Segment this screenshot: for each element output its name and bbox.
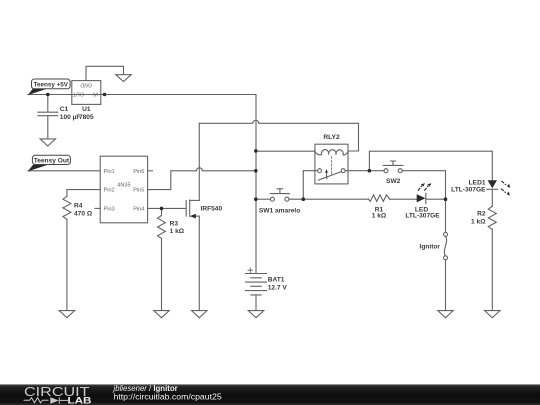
svg-text:Ignitor: Ignitor xyxy=(419,244,440,251)
svg-text:Teensy Out: Teensy Out xyxy=(34,157,70,164)
svg-text:LTL-307GE: LTL-307GE xyxy=(451,187,486,194)
svg-text:SW2: SW2 xyxy=(386,178,401,185)
svg-text:12.7 V: 12.7 V xyxy=(268,284,288,291)
svg-text:LAB: LAB xyxy=(68,394,92,405)
svg-text:R3: R3 xyxy=(170,221,179,228)
svg-text:GND: GND xyxy=(80,82,92,88)
svg-text:Pin5: Pin5 xyxy=(133,188,144,194)
svg-text:SW1 amarelo: SW1 amarelo xyxy=(259,207,300,214)
svg-text:Teensy +5V: Teensy +5V xyxy=(34,81,69,88)
svg-text:Pin2: Pin2 xyxy=(104,188,115,194)
svg-text:http://circuitlab.com/cpaut25: http://circuitlab.com/cpaut25 xyxy=(114,392,222,402)
svg-text:1 kΩ: 1 kΩ xyxy=(372,213,387,220)
svg-text:U1: U1 xyxy=(82,106,91,113)
svg-text:OUT: OUT xyxy=(72,90,84,96)
svg-text:LED1: LED1 xyxy=(469,179,486,186)
svg-text:IRF540: IRF540 xyxy=(201,205,223,212)
svg-text:4N35: 4N35 xyxy=(117,183,130,189)
svg-text:Pin6: Pin6 xyxy=(133,169,144,175)
svg-text:470 Ω: 470 Ω xyxy=(74,210,93,217)
svg-text:Pin3: Pin3 xyxy=(104,206,115,212)
svg-text:1 kΩ: 1 kΩ xyxy=(170,228,185,235)
svg-text:IN: IN xyxy=(93,90,98,96)
svg-text:1 kΩ: 1 kΩ xyxy=(471,219,486,226)
svg-text:R2: R2 xyxy=(477,211,486,218)
svg-text:R4: R4 xyxy=(74,202,83,209)
svg-text:100 µF: 100 µF xyxy=(60,114,81,121)
svg-text:BAT1: BAT1 xyxy=(268,277,285,284)
svg-text:C1: C1 xyxy=(60,106,69,113)
svg-text:RLY2: RLY2 xyxy=(323,134,340,141)
svg-text:LTL-307GE: LTL-307GE xyxy=(405,213,440,220)
svg-text:7805: 7805 xyxy=(79,114,94,121)
svg-text:Pin1: Pin1 xyxy=(104,169,115,175)
svg-text:Pin4: Pin4 xyxy=(133,206,144,212)
